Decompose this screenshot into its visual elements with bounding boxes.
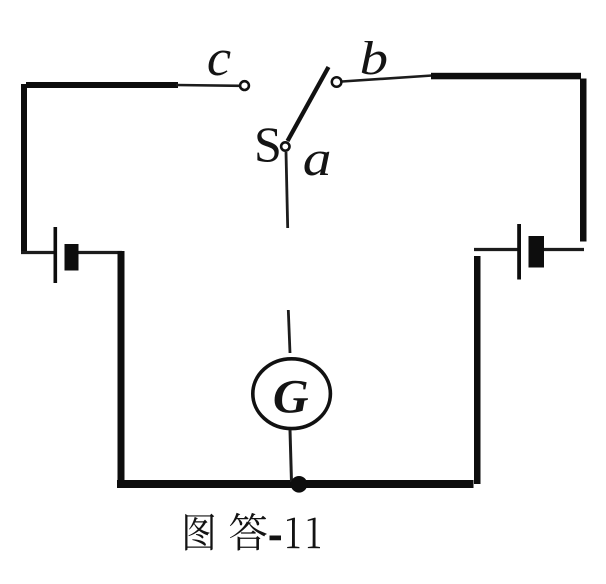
- node c (open contact circle): [240, 81, 249, 90]
- battery B2 short thick plate: [529, 236, 545, 268]
- battery B1 left lead wire: [21, 251, 54, 254]
- svg-text:S: S: [254, 116, 282, 172]
- label c: [207, 28, 232, 87]
- switch S pivot contact: [281, 142, 289, 150]
- wire galvanometer to bus: [290, 430, 292, 482]
- label b: [360, 32, 388, 85]
- caption character 图: [185, 514, 214, 551]
- wire top-left horizontal: [26, 82, 178, 88]
- wire bottom bus horizontal: [117, 480, 474, 488]
- svg-text:a: a: [303, 130, 332, 186]
- battery B1 short thick plate: [65, 244, 79, 271]
- wire top-right horizontal: [431, 73, 581, 80]
- svg-text:b: b: [360, 32, 388, 85]
- switch S blade: [288, 67, 329, 141]
- wire thin lead from contact b: [342, 76, 432, 82]
- wire left descend vertical: [118, 251, 125, 488]
- wire from pivot down (upper segment): [286, 152, 288, 228]
- wire right rail vertical: [580, 79, 587, 242]
- wire to galvanometer (lower segment): [288, 310, 290, 353]
- wire thin lead to contact c: [176, 84, 240, 87]
- svg-text:c: c: [207, 28, 232, 87]
- junction dot on bus: [291, 476, 308, 493]
- battery B2 right lead wire: [544, 248, 584, 251]
- galvanometer G body: [253, 359, 331, 429]
- battery B1 right lead wire: [79, 251, 123, 254]
- svg-text:G: G: [273, 370, 309, 423]
- caption digit 1 (second): [308, 517, 320, 548]
- node b (open contact circle): [332, 77, 342, 87]
- battery B2 long plate: [517, 224, 521, 280]
- caption hyphen: [269, 535, 280, 540]
- caption digit 1 (first): [287, 517, 299, 548]
- label a: [303, 130, 332, 186]
- caption character 答: [230, 513, 267, 551]
- galvanometer G label: [273, 370, 309, 423]
- wire right descend vertical: [474, 256, 481, 484]
- battery B2 left lead wire: [474, 248, 518, 251]
- wire left rail vertical: [21, 84, 27, 251]
- battery B1 long plate: [54, 227, 58, 283]
